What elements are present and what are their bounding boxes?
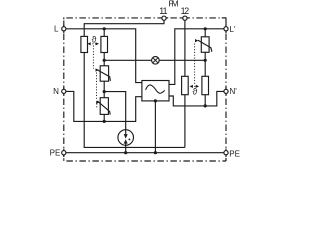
svg-text:12: 12	[181, 6, 190, 16]
svg-text:PE: PE	[229, 150, 240, 159]
svg-text:N': N'	[230, 87, 238, 96]
svg-text:L: L	[54, 24, 59, 33]
svg-text:ϑ: ϑ	[192, 87, 197, 97]
svg-text:ϑ: ϑ	[92, 34, 97, 44]
svg-text:N: N	[53, 87, 59, 96]
svg-text:11: 11	[159, 6, 167, 16]
svg-text:PE: PE	[50, 149, 61, 158]
svg-text:FM: FM	[169, 0, 179, 9]
svg-text:L': L'	[230, 25, 236, 34]
